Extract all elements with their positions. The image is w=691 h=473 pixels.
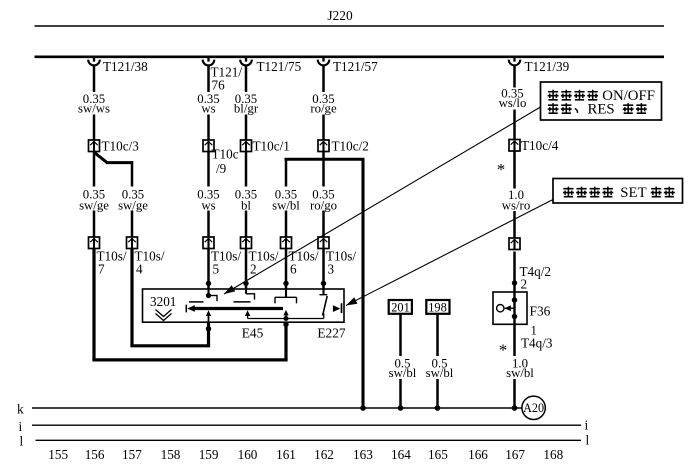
svg-text:163: 163 [353, 447, 373, 462]
switch F36 arrow shaft [505, 307, 515, 309]
node junction above box col 159 [206, 281, 211, 286]
callout arrowhead at E227 [346, 297, 357, 305]
bus bar upper line of J220 [35, 25, 665, 27]
svg-text:sw/bl: sw/bl [506, 366, 534, 380]
callout box ON/OFF RES [541, 82, 662, 120]
wire branch elbow from T10c/3 [94, 152, 107, 162]
wire from plug 201 [399, 314, 402, 356]
wire T10c/3 to T10s/7 upper [93, 152, 96, 187]
wire T10s/6 into switch box [285, 249, 288, 290]
svg-text:sw/ge: sw/ge [79, 198, 109, 212]
svg-text:bl: bl [241, 198, 251, 212]
svg-text:T10c/4: T10c/4 [521, 138, 559, 153]
connector T10c/3 [89, 140, 100, 152]
svg-text:6: 6 [290, 262, 297, 277]
contact pin col 159 inside box [207, 289, 209, 296]
svg-text:A20: A20 [523, 401, 544, 415]
svg-text:ws/ro: ws/ro [502, 198, 530, 212]
plug 198 [426, 300, 449, 314]
wire branch to T10s/4 upper [131, 161, 134, 186]
wire T10s/5 into switch box [207, 249, 210, 290]
connector T10c/9 [203, 140, 214, 152]
contact bridge col 161 [275, 296, 297, 298]
node contact dot col 159 [206, 293, 211, 298]
svg-text:2: 2 [250, 262, 257, 277]
svg-text:162: 162 [314, 447, 334, 462]
svg-text:167: 167 [505, 447, 525, 462]
node T4q/2 junction [512, 280, 517, 285]
callout text SET [563, 187, 574, 198]
wire branch to T10s/6 upper [285, 159, 288, 186]
wire E45 wiper output down col 161 [284, 322, 287, 360]
callout line to E45 [224, 107, 541, 294]
svg-text:k: k [17, 402, 24, 417]
svg-text:sw/ws: sw/ws [78, 102, 110, 116]
callout text line 2 [548, 103, 559, 114]
svg-text:ws/lo: ws/lo [499, 96, 527, 110]
wire T10c/1 to T10s/2 upper [245, 152, 248, 187]
wire T121/76 to T10c/9 [207, 65, 210, 92]
node junction k-167 [512, 405, 518, 411]
terminal T121/76 [203, 57, 215, 66]
svg-text:SET: SET [620, 185, 646, 201]
svg-text:F36: F36 [530, 304, 551, 319]
contact foot col 160 [246, 293, 255, 295]
svg-text:RES: RES [588, 102, 615, 118]
svg-text:155: 155 [48, 447, 68, 462]
svg-text:i: i [585, 418, 589, 433]
actuator arrow at col 159 [206, 310, 211, 316]
svg-text:T10c: T10c [212, 147, 239, 162]
splice 3201 chevron symbol [156, 310, 172, 317]
terminal T121/39 [509, 57, 521, 66]
svg-text:ws: ws [201, 198, 215, 212]
svg-text:E227: E227 [317, 326, 346, 341]
terminal T121/38 [88, 57, 100, 66]
svg-text:T121/57: T121/57 [333, 59, 378, 74]
svg-text:ro/go: ro/go [310, 198, 337, 212]
svg-text:5: 5 [213, 262, 220, 277]
svg-text:T121/38: T121/38 [103, 59, 148, 74]
switch E227 actuation arrowhead [333, 305, 340, 312]
svg-text:161: 161 [276, 447, 296, 462]
wire T4q/3 to ground rail [513, 324, 516, 356]
node junction above box col 161 [283, 281, 288, 286]
svg-text:76: 76 [212, 78, 226, 93]
svg-text:*: * [499, 341, 508, 360]
actuator arrow at col 161 area [245, 310, 250, 316]
svg-text:3: 3 [328, 262, 335, 277]
wire T121/39 to T10c/4 [513, 65, 516, 88]
actuator arrow shaft col 159 [208, 315, 210, 323]
connector T10s/5 [203, 237, 214, 249]
wire T10s/4 down and elbow [130, 249, 133, 346]
svg-text:ws: ws [201, 102, 215, 116]
node junction on link line [284, 316, 289, 321]
svg-text:166: 166 [468, 447, 488, 462]
plug 201 [389, 300, 412, 314]
svg-text:bl/gr: bl/gr [234, 102, 259, 116]
svg-text:T121/39: T121/39 [525, 59, 570, 74]
contact foot col 159 [209, 295, 218, 297]
svg-text:156: 156 [85, 447, 105, 462]
svg-text:/9: /9 [216, 161, 227, 176]
switch F36 box [493, 292, 527, 324]
connector T10s/4 [127, 237, 138, 249]
svg-text:i: i [19, 419, 23, 434]
callout box SET [553, 179, 683, 204]
connector T10c/4 [509, 140, 520, 152]
contact pin col 160 inside box [245, 289, 247, 294]
node junction k-165 [435, 405, 441, 411]
svg-text:sw/bl: sw/bl [272, 198, 300, 212]
wire T10s/3 into switch box [322, 249, 325, 290]
ground point A20 [522, 396, 545, 419]
svg-text:l: l [586, 433, 590, 448]
wiper bar left arrowhead [187, 305, 195, 312]
wire from plug 198 [436, 314, 439, 356]
wire branch bar below T10c/2 [285, 158, 365, 161]
svg-text:2: 2 [521, 277, 528, 292]
wire T10s/7 down and across [92, 249, 95, 360]
svg-text:l: l [20, 434, 24, 449]
bus bar lower line of J220 [35, 55, 665, 58]
svg-text:7: 7 [98, 262, 105, 277]
switch F36 plunger circle [497, 305, 504, 312]
rail l [36, 439, 582, 441]
switch assembly housing box [143, 289, 345, 322]
switch E227 lever [323, 296, 328, 316]
svg-text:sw/ge: sw/ge [118, 198, 148, 212]
wire T4q/2 into F36 [513, 252, 516, 293]
svg-text:168: 168 [543, 447, 563, 462]
fixed plate under contact 159 [189, 301, 204, 303]
svg-text:158: 158 [161, 447, 181, 462]
switch E227 pivot tick [320, 294, 328, 296]
actuator arrow under bridge col 161 [283, 310, 288, 316]
rail i [32, 424, 581, 426]
node F36 lower contact [512, 314, 518, 320]
node junction above box col 162 [321, 281, 326, 286]
switch E227 fixed contact tick [341, 303, 343, 313]
svg-text:164: 164 [391, 447, 411, 462]
node F36 upper contact [512, 297, 518, 303]
svg-text:T4q/3: T4q/3 [521, 336, 553, 351]
switch E227 pin [322, 289, 324, 295]
node junction below box col 159 [206, 326, 211, 331]
callout text line 1 [548, 90, 559, 101]
svg-text:T10c/3: T10c/3 [102, 139, 140, 154]
svg-text:T10c/1: T10c/1 [253, 139, 290, 154]
terminal T121/57 [318, 57, 330, 66]
connector T10c/1 [241, 140, 252, 152]
callout line to E227 [346, 200, 553, 306]
svg-text:E45: E45 [242, 326, 264, 341]
node junction k-163 [360, 405, 366, 411]
wire T10c/9 to T10s/5 upper [207, 152, 210, 187]
wire long drop to track 163 [361, 159, 364, 408]
svg-text:T10c/2: T10c/2 [332, 139, 369, 154]
wire T121/57 to T10c/2 [322, 65, 325, 92]
actuator arrow shaft col 161 [285, 314, 287, 319]
wiper bar left stop tick [185, 305, 187, 313]
connector T10s/3 [318, 237, 329, 249]
contact pin col 161 inside box [285, 289, 287, 297]
connector T10s/7 [89, 237, 100, 249]
svg-text:157: 157 [122, 447, 142, 462]
switch F36 wire inside [513, 292, 515, 324]
svg-text:201: 201 [391, 300, 410, 314]
svg-text:ro/ge: ro/ge [310, 102, 337, 116]
terminal T121/75 [240, 57, 252, 66]
fixed plate under contact 160 [234, 301, 251, 303]
node junction k-164 [398, 405, 404, 411]
rail k [32, 407, 522, 409]
connector T10s/2 [241, 237, 252, 249]
svg-text:J220: J220 [327, 8, 353, 23]
connector T4q (right column) [509, 238, 520, 250]
wire T121/38 to T10c/3 [93, 65, 96, 92]
wire T10s/2 into switch box [245, 249, 248, 290]
svg-text:sw/bl: sw/bl [426, 366, 454, 380]
switch F36 arrowhead [505, 305, 511, 311]
node junction below box col 161 [283, 322, 288, 327]
wire T121/75 to T10c/1 [245, 65, 248, 92]
connector T10s/6 [281, 237, 292, 249]
wire T10c/4 to T4q/2 upper [513, 151, 516, 189]
callout arrowhead at E45 [224, 285, 235, 294]
actuator link line E45 to E227 [247, 315, 249, 319]
svg-text:3201: 3201 [150, 294, 176, 309]
svg-text:165: 165 [428, 447, 448, 462]
connector T10c/2 [318, 140, 329, 152]
svg-text:T121/75: T121/75 [257, 59, 302, 74]
wiper bar of switch E45 [194, 307, 283, 310]
wire T10c/2 to T10s/3 upper [322, 152, 325, 187]
node junction above box col 160 [243, 281, 248, 286]
wire E45 output down col 159 [207, 322, 210, 346]
svg-text:159: 159 [199, 447, 219, 462]
svg-text:198: 198 [428, 300, 447, 314]
svg-text:*: * [497, 160, 506, 179]
svg-text:160: 160 [238, 447, 258, 462]
svg-text:4: 4 [136, 262, 143, 277]
svg-text:sw/bl: sw/bl [389, 366, 417, 380]
